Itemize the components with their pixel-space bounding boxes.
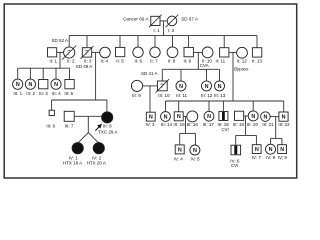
svg-text:III: 8: III: 8 [103,124,112,129]
svg-text:HTX 18 A: HTX 18 A [63,161,82,166]
svg-text:N: N [251,114,255,120]
svg-text:Cancer 66 A: Cancer 66 A [123,16,149,21]
svg-text:TXC 29 A: TXC 29 A [98,129,117,134]
svg-text:II: 12: II: 12 [237,58,248,63]
svg-text:N: N [282,114,286,120]
svg-text:II: 4: II: 4 [100,58,108,63]
svg-text:III: 16: III: 16 [187,122,199,127]
svg-text:N: N [164,114,168,120]
svg-text:II: 8: II: 8 [168,58,176,63]
svg-text:III: 14: III: 14 [161,122,173,127]
svg-text:SD 67 A: SD 67 A [181,16,199,21]
svg-text:N: N [179,84,183,90]
svg-text:III: 1: III: 1 [13,91,22,96]
svg-text:Bypass: Bypass [234,66,249,71]
svg-text:II: 11: II: 11 [215,58,225,63]
svg-text:III: 11: III: 11 [176,93,187,98]
svg-text:?: ? [85,50,89,57]
svg-text:II: 10: II: 10 [202,58,213,63]
svg-text:III: 10: III: 10 [158,93,170,98]
svg-text:III: 20: III: 20 [247,122,259,127]
svg-text:N: N [16,82,20,88]
svg-text:III: 22: III: 22 [278,122,290,127]
svg-text:I: 1: I: 1 [153,28,160,33]
svg-text:III: 15: III: 15 [173,122,185,127]
svg-text:HTX 20 A: HTX 20 A [87,161,106,166]
svg-text:IV: 9: IV: 9 [278,155,288,160]
svg-text:CVI: CVI [221,127,228,132]
svg-text:III: 3: III: 3 [39,91,48,96]
svg-text:II: 6: II: 6 [134,58,142,63]
svg-text:N: N [264,114,268,120]
svg-text:II: 7: II: 7 [150,58,158,63]
svg-text:II: 3: II: 3 [84,58,92,63]
svg-text:N: N [218,84,222,90]
svg-text:N: N [54,82,58,88]
svg-text:II: 2: II: 2 [67,58,75,63]
svg-text:N: N [149,115,153,121]
svg-text:N: N [193,148,197,154]
svg-text:CVI: CVI [231,163,238,168]
svg-text:III: 17: III: 17 [203,122,215,127]
svg-text:?: ? [67,50,71,57]
svg-text:N: N [207,114,211,120]
svg-text:?: ? [160,83,164,90]
svg-text:II: 5: II: 5 [116,58,124,63]
svg-text:IV: 8: IV: 8 [266,155,276,160]
svg-text:III: 12: III: 12 [201,93,213,98]
svg-text:III: 13: III: 13 [214,93,226,98]
svg-text:III: 5: III: 5 [64,91,73,96]
svg-text:III: 4: III: 4 [52,91,61,96]
svg-text:III: 19: III: 19 [233,122,245,127]
svg-text:IV: 4: IV: 4 [174,156,184,161]
svg-text:SD 52 A: SD 52 A [52,38,69,43]
svg-text:N: N [280,147,284,153]
svg-text:II: 13: II: 13 [252,58,263,63]
svg-text:N: N [255,147,259,153]
svg-text:IV: 1: IV: 1 [69,156,79,161]
svg-text:III: 9: III: 9 [132,93,141,98]
svg-text:III: 7: III: 7 [65,124,74,129]
svg-text:IV: 2: IV: 2 [92,156,102,161]
svg-text:SD 41 A: SD 41 A [141,71,158,76]
svg-text:IV: 7: IV: 7 [252,155,262,160]
svg-text:III: 6: III: 6 [46,124,55,129]
svg-text:CVA: CVA [200,63,209,68]
svg-text:N: N [205,84,209,90]
svg-text:N: N [177,114,181,120]
svg-text:II: 9: II: 9 [184,58,192,63]
svg-text:I: 2: I: 2 [168,28,175,33]
svg-text:SD 49 A: SD 49 A [76,64,93,69]
svg-text:II: 1: II: 1 [49,58,57,63]
svg-text:N: N [269,147,273,153]
svg-text:III: 18: III: 18 [217,122,229,127]
svg-text:III: 21: III: 21 [262,122,274,127]
svg-text:IV: 3: IV: 3 [145,122,155,127]
svg-text:N: N [29,82,33,88]
svg-text:N: N [178,147,182,153]
svg-text:IV: 5: IV: 5 [190,156,200,161]
svg-text:III: 2: III: 2 [26,91,35,96]
